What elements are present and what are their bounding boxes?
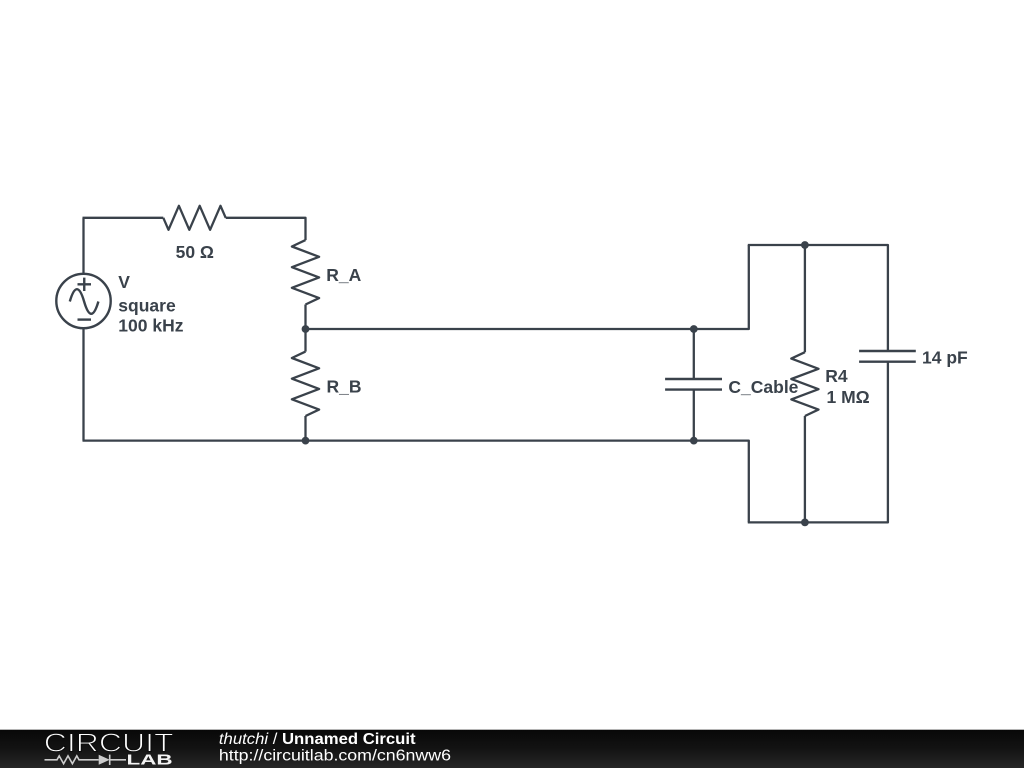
node: R4 top junction [801, 241, 809, 249]
svg-text:LAB: LAB [127, 753, 173, 768]
logo resistor-diode glyph [45, 755, 127, 765]
wire: R_B bottom lead to bottom rail [304, 416, 306, 441]
svg-text:C_Cable: C_Cable [728, 377, 798, 397]
wire: V1 bottom lead down to bottom rail [82, 328, 84, 440]
svg-text:1 MΩ: 1 MΩ [827, 387, 870, 407]
node: C_Cable top junction [690, 325, 698, 333]
svg-text:V: V [118, 272, 130, 292]
wire: R_A bottom lead to mid node [304, 305, 306, 330]
capacitor C2 14pF plates [859, 351, 916, 362]
svg-text:thutchi / Unnamed Circuit: thutchi / Unnamed Circuit [219, 731, 416, 748]
wire: V1 top lead up to top rail [82, 218, 84, 274]
wire: mid rail from R_A node to right stub [306, 245, 749, 329]
wire: bottom rail [83, 441, 749, 523]
V1 plus sign [78, 278, 92, 291]
svg-text:R_B: R_B [327, 376, 362, 396]
wire: top rail right segment to R_A [226, 218, 306, 240]
svg-text:14 pF: 14 pF [922, 348, 968, 368]
node: R4 bottom junction [801, 519, 809, 527]
resistor R4 top lead [804, 245, 806, 352]
wire: right bottom rail [748, 362, 888, 523]
resistor R1 50 ohm [163, 206, 225, 230]
resistor R4 [791, 352, 818, 416]
resistor R_A [292, 240, 319, 304]
resistor R_B [304, 329, 306, 352]
svg-text:100 kHz: 100 kHz [118, 315, 183, 335]
voltage source V1 [56, 274, 110, 328]
svg-text:R_A: R_A [326, 265, 361, 285]
node: C_Cable bottom junction [690, 437, 698, 445]
svg-text:http://circuitlab.com/cn6nww6: http://circuitlab.com/cn6nww6 [219, 748, 451, 765]
svg-text:square: square [118, 295, 176, 315]
V1 minus sign [78, 318, 92, 320]
capacitor C_Cable bottom lead [693, 390, 695, 441]
capacitor C_Cable plates [665, 379, 722, 390]
svg-text:50 Ω: 50 Ω [176, 242, 214, 262]
wire: top rail left segment [83, 217, 164, 219]
node: R_A / R_B mid junction [302, 325, 310, 333]
capacitor C_Cable top lead [693, 329, 695, 379]
node: R_B bottom junction [302, 437, 310, 445]
svg-text:R4: R4 [825, 366, 848, 386]
resistor R4 bottom lead [804, 416, 806, 522]
wire: right top rail [748, 245, 888, 351]
